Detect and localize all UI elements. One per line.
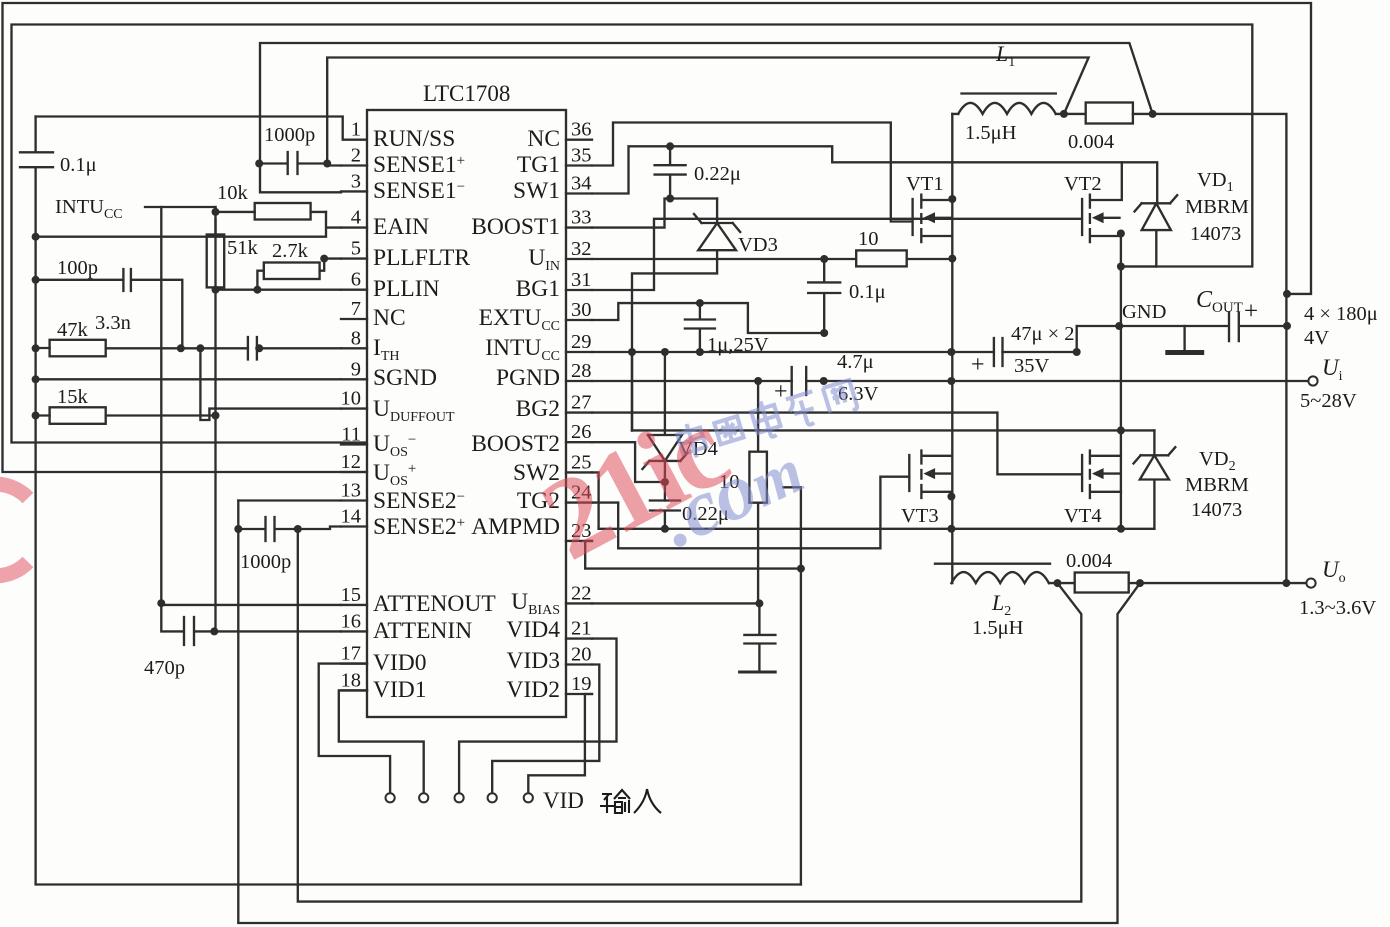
svg-text:14073: 14073 bbox=[1190, 223, 1241, 245]
ground end bar of 0.1u bottom cap bbox=[744, 603, 775, 669]
wire: pin35 TG1 to VT1 gate bbox=[592, 123, 912, 222]
svg-text:3.3n: 3.3n bbox=[95, 312, 131, 334]
wire: pin1 RUN/SS to left bus at y116 bbox=[36, 117, 367, 140]
junction at 951.4,528.8 bbox=[947, 525, 955, 533]
IC right pin names bbox=[471, 126, 560, 703]
junction at 1057.5,583.1 bbox=[1054, 579, 1062, 587]
svg-text:+: + bbox=[774, 379, 788, 405]
wire: pin31 BG1 to VT2 gate bbox=[592, 219, 1081, 290]
svg-text:15k: 15k bbox=[57, 386, 89, 408]
resistor 10 lower (U_BIAS) vertical bbox=[749, 452, 767, 503]
svg-text:VID3: VID3 bbox=[506, 648, 560, 674]
wire: pin9 SGND row to left bus bbox=[36, 378, 341, 380]
svg-text:1.3~3.6V: 1.3~3.6V bbox=[1299, 597, 1376, 619]
wire: pin15 ATTENOUT row bbox=[161, 604, 341, 606]
svg-text:30: 30 bbox=[571, 299, 592, 321]
svg-text:ATTENIN: ATTENIN bbox=[373, 618, 472, 644]
junction at 215.5,289.7 bbox=[212, 286, 220, 294]
svg-text:VT3: VT3 bbox=[901, 505, 939, 527]
svg-text:21: 21 bbox=[571, 618, 592, 640]
node VID input terminal 5 bbox=[524, 793, 533, 802]
svg-text:SGND: SGND bbox=[373, 365, 437, 391]
IC right pin stubs 36-19 bbox=[566, 140, 592, 694]
watermark: red 21IC logo bbox=[522, 385, 746, 585]
svg-text:20: 20 bbox=[571, 644, 592, 666]
svg-text:BOOST2: BOOST2 bbox=[471, 431, 560, 457]
junction at 1120.9,266.5 bbox=[1117, 263, 1125, 271]
svg-text:BG2: BG2 bbox=[516, 396, 560, 422]
wire: pin18 VID1 to terminal 2 bbox=[339, 690, 424, 793]
svg-text:VT2: VT2 bbox=[1064, 173, 1102, 195]
svg-text:33: 33 bbox=[571, 207, 592, 229]
diode VD3 (zener, BOOST1) bbox=[632, 199, 740, 431]
junction at 200.4,348.3 bbox=[196, 344, 204, 352]
wire: pin21 VID4 to terminal 3 bbox=[459, 639, 616, 793]
resistor 0.004 lower sense bbox=[1075, 573, 1129, 593]
capacitor 3.3n bbox=[248, 337, 341, 360]
svg-text:Uo: Uo bbox=[1322, 557, 1346, 586]
wire: pin4 EAIN to 10k and to left bus bbox=[36, 212, 341, 237]
svg-text:19: 19 bbox=[571, 673, 592, 695]
svg-text:4V: 4V bbox=[1304, 327, 1329, 349]
svg-text:4: 4 bbox=[351, 207, 361, 229]
svg-text:MBRM: MBRM bbox=[1185, 196, 1249, 218]
junction at 324.2,258.6 bbox=[320, 255, 328, 263]
svg-text:29: 29 bbox=[571, 331, 592, 353]
svg-text:10k: 10k bbox=[217, 182, 249, 204]
node VID input terminal 4 bbox=[488, 793, 497, 802]
svg-text:4 × 180μ: 4 × 180μ bbox=[1304, 303, 1378, 325]
svg-text:Ui: Ui bbox=[1322, 355, 1343, 384]
svg-text:VID: VID bbox=[543, 788, 584, 813]
wire: pin29 INTUcc row with 47ux2 cap to GND rail bbox=[592, 326, 1077, 352]
capacitor 1000p upper (SENSE1 filter) bbox=[259, 152, 327, 174]
svg-text:0.1μ: 0.1μ bbox=[60, 154, 97, 176]
svg-text:VT4: VT4 bbox=[1064, 505, 1102, 527]
svg-text:6: 6 bbox=[351, 269, 361, 291]
node VID input terminal 2 bbox=[419, 793, 428, 802]
svg-text:MBRM: MBRM bbox=[1185, 474, 1249, 496]
svg-text:BOOST1: BOOST1 bbox=[471, 214, 560, 240]
capacitor 470p bbox=[161, 603, 214, 645]
node VID input terminal 3 bbox=[455, 793, 464, 802]
svg-text:2.7k: 2.7k bbox=[272, 240, 309, 262]
svg-text:16: 16 bbox=[341, 610, 362, 632]
svg-text:5~28V: 5~28V bbox=[1300, 390, 1357, 412]
svg-text:0.004: 0.004 bbox=[1068, 131, 1114, 153]
wire: VT1/VT3 drain-source bus x952 from L1 down to L2 bbox=[951, 114, 953, 583]
junction at 758.1,381 bbox=[754, 377, 762, 385]
wire: VT2/VT4 source bus x1120.9 to GND rail and SW2 row bbox=[1120, 234, 1122, 529]
svg-text:VD1: VD1 bbox=[1197, 169, 1234, 195]
junction at 35.6,348.3 bbox=[32, 344, 40, 352]
junction at 35.6,236.7 bbox=[32, 233, 40, 241]
junction at 951.4,496.5 bbox=[947, 493, 955, 501]
svg-text:470p: 470p bbox=[144, 657, 185, 679]
wire: bottom rail2 from SENSE2+ 1000p node to L2 0.004 left sense bbox=[298, 529, 1082, 902]
wire: VD1 anode row to VT2 source bus bbox=[1121, 265, 1156, 267]
watermark: partial red letter at left edge bbox=[0, 484, 28, 576]
svg-text:VD2: VD2 bbox=[1199, 448, 1236, 474]
svg-text:15: 15 bbox=[341, 584, 362, 606]
svg-text:ATTENOUT: ATTENOUT bbox=[373, 591, 496, 617]
svg-text:L2: L2 bbox=[991, 590, 1011, 619]
wire: pin23 AMPMD to bottom rail branch bbox=[585, 541, 801, 569]
junction at 297.8,529 bbox=[294, 525, 302, 533]
svg-text:18: 18 bbox=[341, 669, 362, 691]
svg-text:3: 3 bbox=[351, 170, 361, 192]
svg-text:COUT: COUT bbox=[1196, 287, 1243, 316]
capacitor Cout bbox=[1077, 313, 1287, 342]
junction at 1152.6,113.9 bbox=[1149, 110, 1157, 118]
junction at 1287,293.9 bbox=[1283, 290, 1291, 298]
svg-text:SENSE1+: SENSE1+ bbox=[373, 152, 465, 178]
capacitor 0.22u upper (BOOST1) bbox=[655, 146, 686, 198]
capacitor 1000p lower (SENSE2 filter) bbox=[238, 517, 341, 541]
svg-text:NC: NC bbox=[373, 305, 406, 331]
junction at 215.5,211.9 bbox=[212, 208, 220, 216]
watermark: blue Chinese site name (zhong guo dian zi wang) bbox=[675, 375, 858, 463]
junction at 35.6,415.5 bbox=[32, 412, 40, 420]
diode VD4 (zener, BOOST2) bbox=[642, 352, 687, 501]
junction at 670.1,146.3 bbox=[666, 142, 674, 150]
junction at 1119.2,326 bbox=[1115, 322, 1123, 330]
svg-text:L1: L1 bbox=[995, 41, 1015, 70]
wire: pin6 PLLIN row bbox=[216, 289, 342, 291]
junction at 257.4,289.7 bbox=[253, 286, 261, 294]
svg-text:PGND: PGND bbox=[496, 365, 560, 391]
svg-text:VID0: VID0 bbox=[373, 650, 427, 676]
svg-text:SENSE1−: SENSE1− bbox=[373, 178, 465, 204]
node INTUcc wire to divider bbox=[145, 206, 216, 208]
capacitor 0.1u left (series in left bus) bbox=[20, 152, 53, 167]
wire: pin28 PGND / input rail row with 4.7u cap to U_i bbox=[592, 380, 1309, 382]
junction at 35.6,279.8 bbox=[32, 276, 40, 284]
svg-text:VID1: VID1 bbox=[373, 677, 427, 703]
svg-text:36: 36 bbox=[571, 119, 592, 141]
svg-text:13: 13 bbox=[341, 480, 362, 502]
svg-text:4.7μ: 4.7μ bbox=[837, 351, 874, 373]
svg-text:1000p: 1000p bbox=[240, 551, 291, 573]
wire: outer border loop from pin12 U_OS+ around left/top to U_i terminal bbox=[3, 3, 1312, 472]
svg-text:14: 14 bbox=[341, 506, 362, 528]
capacitor 47u x2 35V plates bbox=[994, 338, 1003, 366]
IC left pin stubs 2-18 bbox=[341, 166, 367, 691]
svg-text:12: 12 bbox=[341, 451, 362, 473]
wire: pin32 U_IN row bbox=[592, 258, 856, 260]
svg-text:31: 31 bbox=[571, 269, 592, 291]
wire: left vertical bus x35.6 with series 0.1u cap to bottom rail bbox=[36, 117, 801, 885]
node label: Chinese characters "shu ru" (input) drawn as strokes bbox=[600, 789, 661, 813]
svg-text:SENSE2+: SENSE2+ bbox=[373, 514, 465, 540]
junction at 35.6,379.3 bbox=[32, 375, 40, 383]
svg-text:2: 2 bbox=[351, 145, 361, 167]
junction at 632,352 bbox=[628, 348, 636, 356]
wire: pin26 BOOST2 to VD4 node bbox=[592, 442, 665, 482]
svg-text:27: 27 bbox=[571, 392, 592, 414]
junction at 664.9,482 bbox=[661, 478, 669, 486]
junction at 259.2,163.5 bbox=[255, 160, 263, 168]
wire: pin2 SENSE1+ stub to 1000p node bbox=[327, 164, 341, 166]
junction at 664.9,352 bbox=[661, 348, 669, 356]
svg-text:PLLFLTR: PLLFLTR bbox=[373, 245, 470, 271]
svg-text:7: 7 bbox=[351, 298, 361, 320]
svg-text:+: + bbox=[971, 352, 985, 378]
diode VD1 MBRM14073 bbox=[1135, 195, 1178, 266]
diode VD2 MBRM14073 bbox=[1134, 430, 1176, 528]
svg-text:SENSE2−: SENSE2− bbox=[373, 488, 465, 514]
svg-text:34: 34 bbox=[571, 173, 592, 195]
wire: third border from 1000p/SENSE1 node to 0.004 right sense tap bbox=[260, 43, 1153, 164]
IC U1 LTC1708 body bbox=[367, 110, 566, 717]
svg-text:14073: 14073 bbox=[1191, 499, 1242, 521]
wire: second border loop from pin11 U_OS- to VD1 cathode return bbox=[12, 25, 1253, 443]
junction at 952.3,199 bbox=[948, 195, 956, 203]
svg-text:EAIN: EAIN bbox=[373, 214, 429, 240]
ground GND symbol bbox=[1183, 326, 1185, 350]
watermark: blue .com script bbox=[646, 423, 815, 564]
svg-text:9: 9 bbox=[351, 358, 361, 380]
junction at 670.1,198.5 bbox=[666, 195, 674, 203]
svg-text:1.5μH: 1.5μH bbox=[965, 122, 1017, 144]
node VID input terminal 1 bbox=[386, 793, 395, 802]
svg-text:VID2: VID2 bbox=[506, 677, 560, 703]
junction at 180.8,348.3 bbox=[177, 344, 185, 352]
svg-text:VD3: VD3 bbox=[738, 234, 778, 256]
junction at 664.9,528.8 bbox=[661, 525, 669, 533]
wire: pin10 U_DUFFOUT zigzag to I_TH node bbox=[200, 348, 341, 420]
svg-text:0.004: 0.004 bbox=[1066, 550, 1112, 572]
wire: row430 to VT4 drain bus and VD2 cathode bbox=[632, 429, 1154, 431]
svg-text:35V: 35V bbox=[1014, 355, 1050, 377]
wire: pin27 BG2 to VT4 gate bbox=[592, 413, 1081, 475]
svg-text:NC: NC bbox=[527, 126, 560, 152]
wire: pin13 SENSE2- row bbox=[238, 499, 341, 501]
capacitor 100p bbox=[36, 269, 183, 348]
inductor L2 bbox=[935, 563, 1050, 565]
resistor 10 (VT1 gate series) bbox=[856, 250, 907, 266]
wire: pin5 PLLFLTR row bbox=[324, 257, 341, 259]
svg-text:GND: GND bbox=[1122, 301, 1166, 323]
junction at 800.9,568.6 bbox=[797, 565, 805, 573]
junction at 1286.4,583.1 bbox=[1282, 579, 1290, 587]
svg-text:PLLIN: PLLIN bbox=[373, 276, 440, 302]
junction at 214.3,631.4 bbox=[210, 627, 218, 635]
resistor 15k bbox=[50, 407, 106, 424]
svg-text:35: 35 bbox=[571, 145, 592, 167]
junction at 824.2,333 bbox=[820, 329, 828, 337]
svg-text:0.22μ: 0.22μ bbox=[694, 163, 741, 185]
resistor 47k bbox=[50, 340, 106, 357]
svg-text:VID4: VID4 bbox=[506, 617, 560, 643]
wire: vertical INTUcc branch x161 to pin15 row bbox=[160, 207, 162, 603]
inductor L1 bbox=[962, 92, 1056, 94]
svg-text:47μ × 2: 47μ × 2 bbox=[1011, 323, 1075, 345]
node U_i input terminal bbox=[1308, 376, 1317, 385]
terminal circles bbox=[386, 376, 1318, 802]
capacitor 4.7u 6.3V plates bbox=[792, 367, 807, 395]
svg-text:SW1: SW1 bbox=[513, 178, 560, 204]
svg-text:1000p: 1000p bbox=[264, 124, 315, 146]
junction at 952.3,258.6 bbox=[948, 255, 956, 263]
svg-text:47k: 47k bbox=[57, 319, 89, 341]
wire: pin34 SW1 row to 0.22u top and VT2 drain and VD1 anode bbox=[592, 146, 1157, 203]
svg-text:1.5μH: 1.5μH bbox=[972, 617, 1024, 639]
junction at 1063.9,113.9 bbox=[1060, 110, 1068, 118]
svg-text:VT1: VT1 bbox=[906, 173, 944, 195]
svg-text:10: 10 bbox=[858, 228, 879, 250]
junction at 824.2,259 bbox=[820, 255, 828, 263]
wire: pin33 BOOST1 to 0.22u bottom node bbox=[592, 199, 717, 228]
junction at 951.4,352 bbox=[947, 348, 955, 356]
resistor 51k vertical bbox=[207, 235, 225, 288]
junction at 1076.7,352 bbox=[1073, 348, 1081, 356]
svg-text:LTC1708: LTC1708 bbox=[423, 81, 510, 106]
svg-text:1μ,25V: 1μ,25V bbox=[707, 334, 769, 356]
wire: pin19 VID2 to terminal 5 bbox=[528, 694, 592, 793]
svg-text:INTUCC: INTUCC bbox=[55, 196, 123, 222]
junction at 238.3,529 bbox=[234, 525, 242, 533]
junction at 759.4,603.4 bbox=[755, 599, 763, 607]
junction at 823.7,381 bbox=[820, 377, 828, 385]
junction at 699.9,303.1 bbox=[696, 299, 704, 307]
svg-text:0.1μ: 0.1μ bbox=[849, 281, 886, 303]
transistor VT2 (P-MOSFET) bbox=[1082, 162, 1122, 242]
wire: x632 vertical EXTU/INTU branch to row430 bbox=[631, 352, 633, 430]
svg-text:5: 5 bbox=[351, 238, 361, 260]
wire: vertical x800.9 AMPMD net to bottom rail1 bbox=[783, 487, 801, 884]
junction at 327.2,163.5 bbox=[323, 160, 331, 168]
svg-text:RUN/SS: RUN/SS bbox=[373, 126, 455, 152]
transistor VT3 (P-MOSFET) bbox=[909, 451, 951, 498]
capacitor 1u,25V bbox=[685, 303, 715, 352]
transistor VT1 (P-MOSFET) bbox=[913, 195, 953, 242]
wire: pin3 SENSE1- row bbox=[260, 164, 341, 193]
capacitor 0.1u middle bbox=[808, 259, 840, 333]
svg-text:100p: 100p bbox=[57, 257, 98, 279]
IC left pin names bbox=[373, 126, 496, 703]
junction at 1140,583.1 bbox=[1136, 579, 1144, 587]
junction at 1120.9,430.4 bbox=[1117, 426, 1125, 434]
svg-text:+: + bbox=[1244, 298, 1258, 325]
wire: pin24 TG2 to VT3 gate bbox=[592, 477, 908, 549]
wire: pin22 U_BIAS row bbox=[592, 602, 759, 604]
junction at 215.5,415.5 bbox=[212, 412, 220, 420]
resistor 2.7k bbox=[264, 263, 320, 280]
junction at 699.9,352 bbox=[696, 348, 704, 356]
wire: fourth border from 1000p/SENSE1+ node to L1 right sense tap bbox=[327, 58, 1088, 164]
wire: pin16 ATTENIN row bbox=[214, 630, 341, 632]
junction at 951.4,381 bbox=[947, 377, 955, 385]
svg-text:TG1: TG1 bbox=[517, 152, 560, 178]
junction at 1120.9,528.8 bbox=[1117, 525, 1125, 533]
junction at 1120.9,233.5 bbox=[1117, 230, 1125, 238]
svg-text:8: 8 bbox=[351, 327, 361, 349]
wire: 10 ohm lower resistor branch from PGND row to pin22 node bbox=[757, 381, 759, 603]
wire: pin25 SW2 to SW2 row bbox=[592, 472, 599, 528]
svg-text:10: 10 bbox=[341, 388, 362, 410]
svg-text:22: 22 bbox=[571, 582, 592, 604]
svg-text:28: 28 bbox=[571, 360, 592, 382]
pin numbers 1-18 left bbox=[341, 119, 362, 692]
junction at 259.2,348.3 bbox=[255, 344, 263, 352]
capacitor 0.22u lower (BOOST2) bbox=[650, 501, 680, 529]
node U_o output terminal bbox=[1306, 579, 1315, 588]
resistor 10k bbox=[255, 203, 311, 220]
transistor VT4 (P-MOSFET) bbox=[1082, 451, 1121, 498]
svg-text:51k: 51k bbox=[227, 237, 259, 259]
wire: pin17 VID0 to terminal 1 bbox=[319, 664, 390, 793]
svg-text:1: 1 bbox=[351, 119, 361, 141]
wire: pin30 EXTUcc to 1u cap and 0.1u bottom node bbox=[592, 303, 824, 333]
junction at 161.3,603.2 bbox=[157, 599, 165, 607]
svg-text:17: 17 bbox=[341, 643, 362, 665]
wire: pin20 VID3 to terminal 4 bbox=[492, 665, 599, 794]
wire: SW2 row to VT3 source and VD2 anode bbox=[599, 528, 1155, 530]
svg-text:32: 32 bbox=[571, 238, 592, 260]
resistor 0.004 upper sense bbox=[1086, 103, 1133, 124]
svg-text:11: 11 bbox=[341, 424, 361, 446]
wire: vertical divider branch x215.5 down to 470p bbox=[214, 207, 216, 631]
svg-text:BG1: BG1 bbox=[516, 276, 560, 302]
wire: bottom rail3 from pin13 SENSE2- to 0.004 right sense bbox=[238, 501, 1140, 924]
wire: 0.004 right to right-edge rail and U_o column bbox=[1153, 114, 1287, 583]
junction at 1287,325.9 bbox=[1283, 322, 1291, 330]
